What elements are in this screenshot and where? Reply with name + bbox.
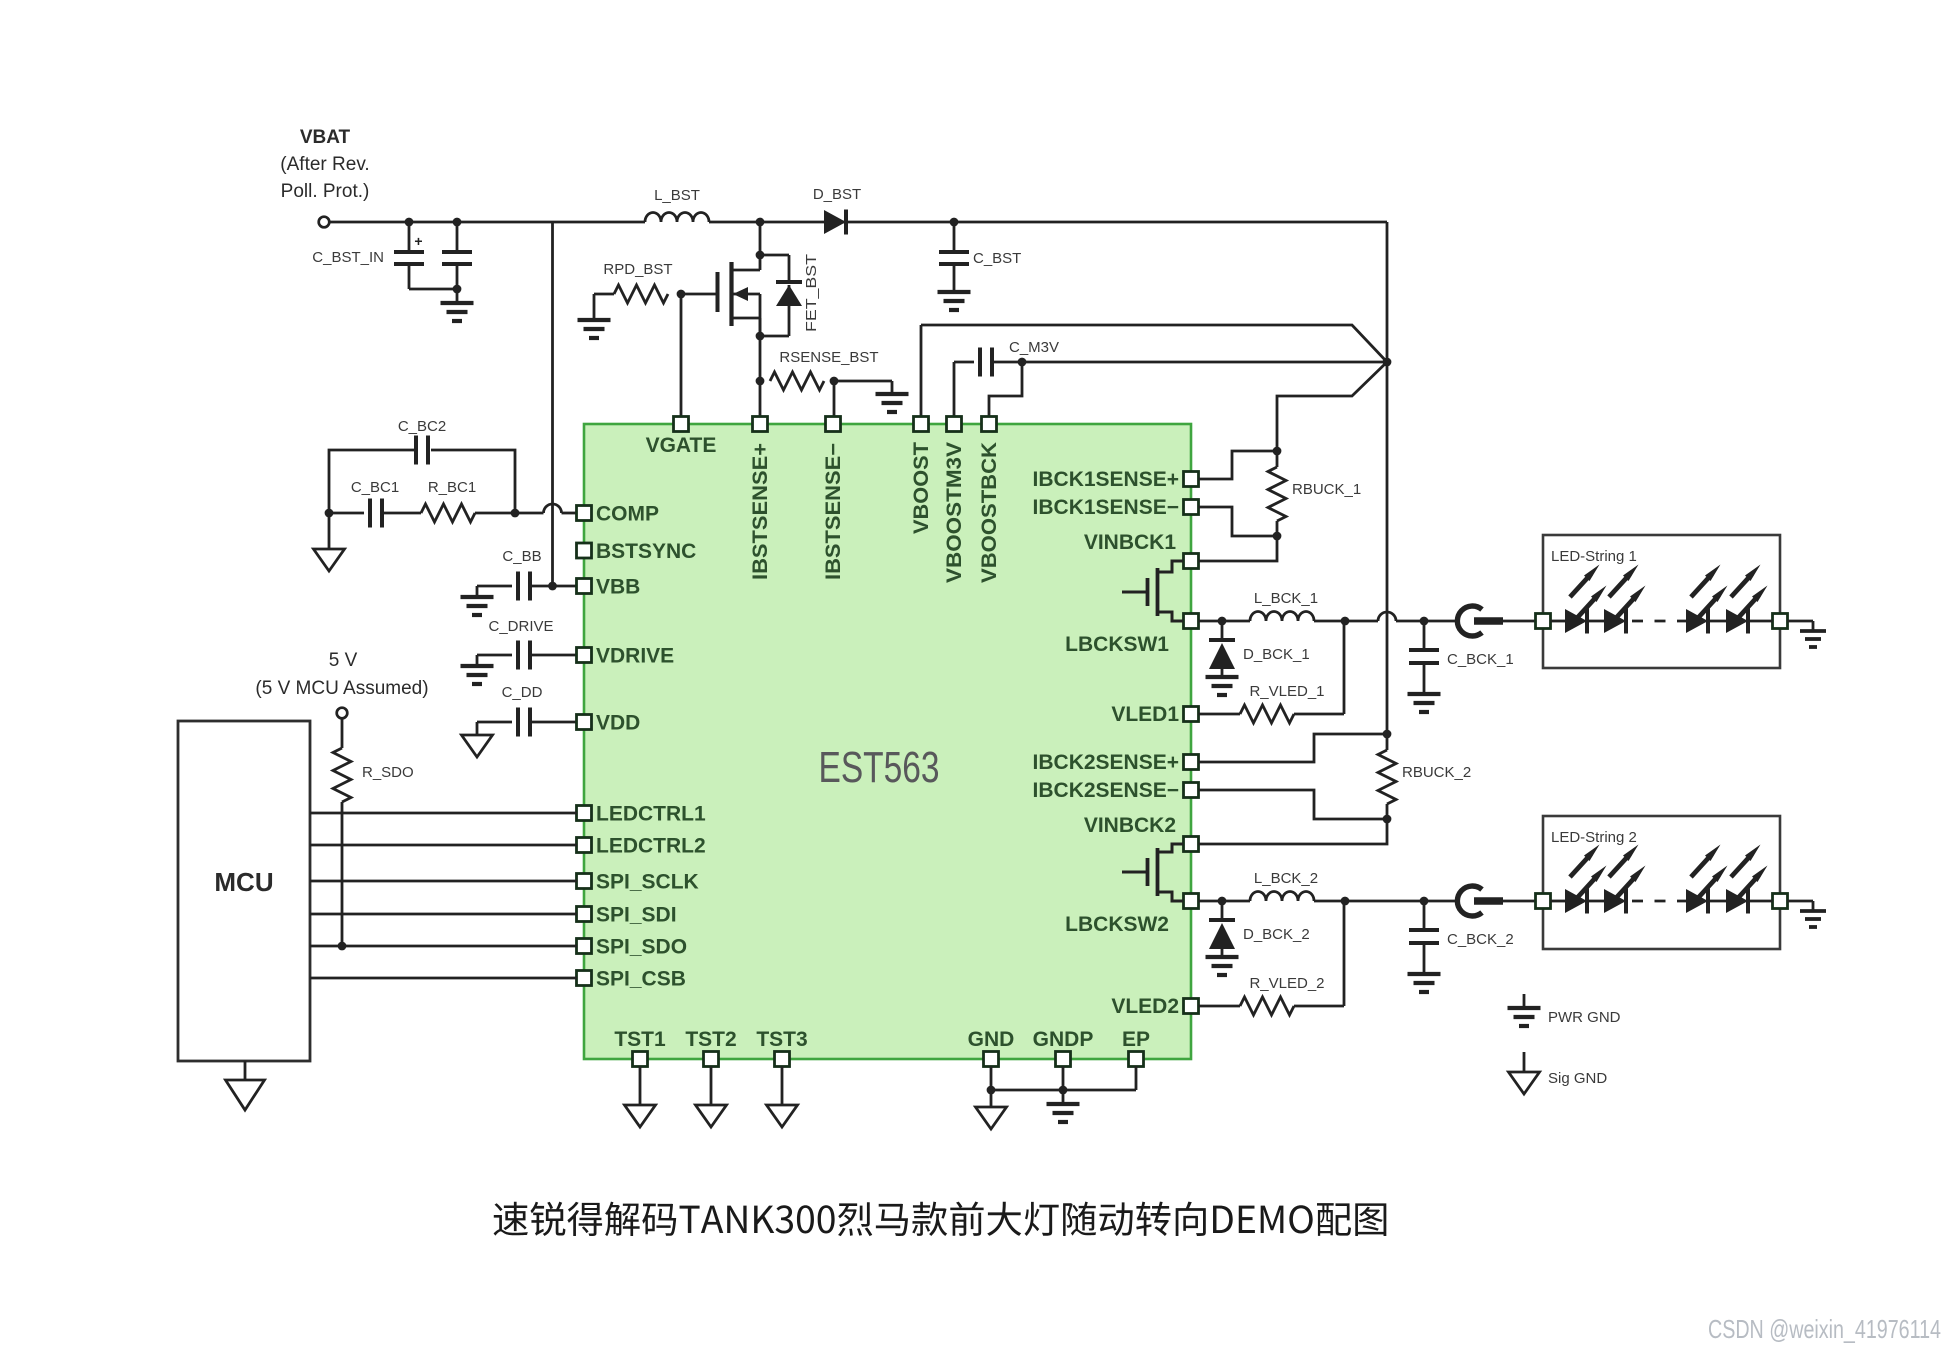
- ferrite bead output 2: [1457, 886, 1482, 916]
- diode D_BST: [824, 210, 846, 234]
- LED D4 string1: [1708, 620, 1737, 623]
- svg-text:LEDCTRL2: LEDCTRL2: [596, 835, 706, 858]
- pin IBCK1SENSE-: [1184, 500, 1199, 515]
- ground RSENSE_BST: [876, 392, 909, 396]
- svg-text:VGATE: VGATE: [646, 434, 717, 457]
- wire TST1 to ground: [639, 1067, 642, 1106]
- svg-text:SPI_SDO: SPI_SDO: [596, 936, 687, 959]
- wire IBCK1SENSE- to RBUCK_1 bottom: [1199, 507, 1278, 536]
- wire C_M3V to bus point: [1022, 361, 1387, 364]
- svg-text:IBSTSENSE−: IBSTSENSE−: [822, 443, 845, 580]
- svg-text:+: +: [414, 233, 422, 249]
- junction dot buck1 output: [1341, 617, 1350, 626]
- resistor R_VLED_1: [1199, 713, 1241, 716]
- terminal 5V: [337, 708, 348, 719]
- pin VDD: [577, 715, 592, 730]
- junction dot VBB: [548, 582, 557, 591]
- capacitor C_BC2 loop: [329, 450, 414, 513]
- diode D_BCK_2: [1221, 901, 1224, 920]
- terminal LED-String 1 in: [1536, 614, 1551, 629]
- junction dot bus point: [1383, 358, 1392, 367]
- wire drain from switch node: [759, 222, 762, 255]
- junction dot RBUCK_2 top: [1383, 730, 1392, 739]
- pin BSTSYNC: [577, 543, 592, 558]
- svg-text:SPI_CSB: SPI_CSB: [596, 968, 686, 991]
- svg-text:VDRIVE: VDRIVE: [596, 645, 674, 668]
- svg-text:C_BC2: C_BC2: [398, 418, 446, 435]
- wire FET source down: [759, 336, 762, 417]
- svg-text:C_BB: C_BB: [502, 548, 541, 565]
- svg-text:VBOOSTM3V: VBOOSTM3V: [943, 442, 966, 583]
- wire SPI_SCLK: [310, 880, 577, 883]
- svg-text:L_BCK_1: L_BCK_1: [1254, 590, 1318, 607]
- ferrite bead output 1: [1457, 606, 1482, 636]
- junction dot boost switch node: [756, 218, 765, 227]
- transistor FET_BST: [716, 272, 720, 312]
- svg-text:LBCKSW1: LBCKSW1: [1065, 633, 1169, 656]
- wire D4 to out: [1748, 620, 1773, 623]
- svg-text:COMP: COMP: [596, 503, 659, 526]
- terminal LED-String 2 out: [1773, 894, 1788, 909]
- capacitor C_DD: [477, 721, 512, 724]
- wire SPI_CSB: [310, 977, 577, 980]
- wire L_BCK_1 to node: [1314, 620, 1345, 623]
- svg-text:SPI_SDI: SPI_SDI: [596, 904, 677, 927]
- wire LBCKSW2 out: [1199, 900, 1251, 903]
- svg-text:GNDP: GNDP: [1033, 1028, 1094, 1051]
- svg-text:VLED1: VLED1: [1111, 703, 1179, 726]
- ground C_BCK_2: [1408, 972, 1441, 976]
- svg-text:EST563: EST563: [819, 743, 940, 792]
- ground node A: [328, 513, 331, 549]
- junction dot RBUCK_1 top: [1273, 447, 1282, 456]
- pin LEDCTRL1: [577, 806, 592, 821]
- junction dot RBUCK_1 bottom: [1273, 532, 1282, 541]
- LED-String 2 box: [1543, 816, 1780, 949]
- svg-text:D_BST: D_BST: [813, 186, 861, 203]
- wire LEDCTRL1: [310, 812, 577, 815]
- ground LED-String 2: [1800, 909, 1826, 913]
- wire GND down: [990, 1090, 993, 1107]
- junction dot RSENSE right: [830, 377, 839, 386]
- svg-text:C_DRIVE: C_DRIVE: [488, 618, 553, 635]
- wire ferrite to LED-String 1: [1502, 620, 1543, 623]
- caption text: [494, 1201, 1387, 1236]
- junction dot C_M3V right: [1018, 358, 1027, 367]
- ground D_BCK_2: [1206, 955, 1239, 959]
- LED D2 string2: [1587, 900, 1605, 903]
- wire dashed string2: [1632, 900, 1692, 903]
- svg-text:LED-String 1: LED-String 1: [1551, 548, 1637, 565]
- capacitor C_BB: [477, 585, 512, 588]
- resistor R_VLED_2: [1199, 1005, 1241, 1008]
- pin VBOOSTM3V: [947, 417, 962, 432]
- pin SPI_SDO: [577, 939, 592, 954]
- body diode FET_BST: [760, 254, 789, 257]
- wire LED-String 1 to ground: [1788, 620, 1814, 623]
- wire D4 to out 2: [1748, 900, 1773, 903]
- capacitor C_M3V: [953, 362, 956, 417]
- junction dot C2 bottom: [453, 285, 462, 294]
- ground D_BCK_1: [1206, 675, 1239, 679]
- diode D_BCK_1: [1221, 621, 1224, 640]
- svg-text:Sig GND: Sig GND: [1548, 1070, 1607, 1087]
- wire GNDP down: [1062, 1090, 1065, 1104]
- pin TST3: [775, 1052, 790, 1067]
- wire comp to COMP pin with hop: [515, 512, 544, 515]
- resistor R_BC1: [382, 512, 421, 515]
- svg-text:PWR GND: PWR GND: [1548, 1009, 1621, 1026]
- LED D2 string1: [1587, 620, 1605, 623]
- ground MCU: [244, 1061, 247, 1080]
- svg-text:GND: GND: [968, 1028, 1015, 1051]
- junction dot FET drain: [756, 251, 765, 260]
- wire bus arrow top: [921, 325, 1387, 362]
- node gate FET_BST: [677, 290, 686, 299]
- capacitor C_BC1: [329, 512, 364, 515]
- pin IBCK2SENSE-: [1184, 783, 1199, 798]
- wire IBCK2SENSE- to RBUCK_2 bottom: [1199, 790, 1388, 819]
- svg-text:CSDN @weixin_41976114: CSDN @weixin_41976114: [1708, 1314, 1941, 1344]
- svg-text:L_BCK_2: L_BCK_2: [1254, 870, 1318, 887]
- wire VBAT branch down to VBB: [551, 222, 554, 586]
- pin VINBCK1: [1184, 554, 1199, 569]
- ground legend PWR GND: [1523, 994, 1526, 1008]
- svg-text:LBCKSW2: LBCKSW2: [1065, 913, 1169, 936]
- wire VBOOST vertical right: [1386, 222, 1389, 734]
- svg-text:IBCK2SENSE−: IBCK2SENSE−: [1033, 779, 1179, 802]
- transistor buck2 internal: [1122, 871, 1147, 874]
- svg-text:C_BCK_1: C_BCK_1: [1447, 651, 1514, 668]
- wire ferrite to LED-String 2: [1502, 900, 1543, 903]
- wire VBOOSTBCK jog: [989, 362, 1022, 417]
- wire gate to VGATE pin: [680, 294, 683, 417]
- svg-text:R_BC1: R_BC1: [428, 479, 476, 496]
- svg-text:VDD: VDD: [596, 712, 640, 735]
- wire VBAT rail: [330, 221, 646, 224]
- ground TST3: [767, 1105, 798, 1127]
- junction dot C_BST node: [950, 218, 959, 227]
- pin EP: [1129, 1052, 1144, 1067]
- svg-text:TST1: TST1: [614, 1028, 666, 1051]
- svg-text:L_BST: L_BST: [654, 187, 700, 204]
- pin TST2: [704, 1052, 719, 1067]
- transistor buck1 internal: [1122, 591, 1147, 594]
- svg-text:RBUCK_2: RBUCK_2: [1402, 764, 1471, 781]
- junction dot D_BCK_1: [1218, 617, 1227, 626]
- terminal LED-String 2 in: [1536, 894, 1551, 909]
- junction dot R_SDO to SPI_SDO: [338, 942, 347, 951]
- svg-text:FET_BST: FET_BST: [803, 254, 820, 332]
- pin IBCK2SENSE+: [1184, 755, 1199, 770]
- junction dot GNDP: [1059, 1086, 1068, 1095]
- svg-text:C_BCK_2: C_BCK_2: [1447, 931, 1514, 948]
- terminal VBAT input: [319, 217, 330, 228]
- resistor R_SDO: [341, 718, 344, 748]
- svg-text:Poll. Prot.): Poll. Prot.): [281, 181, 370, 202]
- pin LBCKSW1: [1184, 614, 1199, 629]
- svg-text:VBAT: VBAT: [300, 127, 351, 148]
- pin SPI_SDI: [577, 907, 592, 922]
- ground TST2: [696, 1105, 727, 1127]
- pin VBOOST: [914, 417, 929, 432]
- pin GNDP: [1056, 1052, 1071, 1067]
- svg-text:TST2: TST2: [685, 1028, 736, 1051]
- pin SPI_CSB: [577, 971, 592, 986]
- svg-text:RSENSE_BST: RSENSE_BST: [779, 349, 878, 366]
- svg-text:MCU: MCU: [214, 867, 273, 897]
- wire IBCK1SENSE+ to RBUCK_1 top: [1199, 451, 1278, 479]
- svg-text:C_M3V: C_M3V: [1009, 339, 1059, 356]
- svg-text:IBSTSENSE+: IBSTSENSE+: [749, 443, 772, 580]
- svg-text:D_BCK_2: D_BCK_2: [1243, 926, 1310, 943]
- pin VGATE: [674, 417, 689, 432]
- ground RPD_BST: [593, 294, 596, 320]
- svg-text:IBCK2SENSE+: IBCK2SENSE+: [1033, 751, 1179, 774]
- svg-text:VLED2: VLED2: [1111, 995, 1179, 1018]
- IC U1 EST563 body: [584, 424, 1191, 1059]
- junction dot rail at C2: [453, 218, 462, 227]
- junction dot C_BCK_2: [1420, 897, 1429, 906]
- pin GND: [984, 1052, 999, 1067]
- svg-text:5 V: 5 V: [329, 650, 358, 671]
- resistor RBUCK_1: [1276, 451, 1279, 467]
- wire SPI_SDI: [310, 913, 577, 916]
- wire VBOOST pin riser: [920, 325, 923, 417]
- svg-text:R_VLED_2: R_VLED_2: [1249, 975, 1324, 992]
- capacitor C_BCK_2: [1423, 901, 1426, 930]
- wire GND/GNDP/EP tie: [990, 1067, 993, 1091]
- ground GNDP power: [1047, 1102, 1080, 1106]
- ground LED-String 1: [1800, 629, 1826, 633]
- ground GND signal: [976, 1107, 1007, 1129]
- pin VLED2: [1184, 999, 1199, 1014]
- svg-text:RPD_BST: RPD_BST: [603, 261, 672, 278]
- junction dot RSENSE left: [756, 377, 765, 386]
- LED D3 string1: [1686, 609, 1708, 633]
- pin TST1: [633, 1052, 648, 1067]
- LED D1 string1: [1551, 620, 1566, 623]
- svg-text:LEDCTRL1: LEDCTRL1: [596, 803, 706, 826]
- pin VLED1: [1184, 707, 1199, 722]
- wire IBCK2SENSE+ to RBUCK_2 top: [1199, 734, 1388, 762]
- svg-text:(After Rev.: (After Rev.: [280, 154, 369, 175]
- svg-text:TST3: TST3: [756, 1028, 807, 1051]
- junction dot D_BCK_2: [1218, 897, 1227, 906]
- LED-String 1 box: [1543, 535, 1780, 668]
- wire rail L_BST to corner: [709, 221, 1387, 224]
- svg-text:VINBCK2: VINBCK2: [1084, 814, 1176, 837]
- svg-text:EP: EP: [1122, 1028, 1150, 1051]
- pin IBSTSENSE-: [826, 417, 841, 432]
- svg-text:VBOOSTBCK: VBOOSTBCK: [978, 442, 1001, 583]
- pin LEDCTRL2: [577, 838, 592, 853]
- wire buck1 output with hop: [1345, 620, 1378, 623]
- ground C_BST: [938, 290, 971, 294]
- wire dashed string1: [1632, 620, 1692, 623]
- wire TST3 to ground: [781, 1067, 784, 1106]
- pin VBOOSTBCK: [982, 417, 997, 432]
- wire LED-String 2 to ground: [1788, 900, 1814, 903]
- resistor RSENSE_BST: [770, 372, 824, 390]
- junction dot comp right: [511, 509, 520, 518]
- junction dot C_BCK_1: [1420, 617, 1429, 626]
- wire R_VLED_2 riser: [1343, 901, 1346, 1006]
- inductor L_BCK_1: [1250, 612, 1314, 622]
- svg-text:C_DD: C_DD: [502, 684, 543, 701]
- junction dot RBUCK_2 bottom: [1383, 815, 1392, 824]
- wire LEDCTRL2: [310, 844, 577, 847]
- resistor RPD_BST: [614, 285, 668, 303]
- junction dot FET source: [756, 332, 765, 341]
- capacitor C_DRIVE: [477, 654, 512, 657]
- wire to ferrite 2: [1424, 900, 1460, 903]
- svg-text:VBB: VBB: [596, 576, 640, 599]
- capacitor C2 input: [456, 222, 459, 252]
- junction dot GND: [987, 1086, 996, 1095]
- junction dot rail at C_BST_IN: [405, 218, 414, 227]
- wire R_VLED_1 riser: [1343, 621, 1346, 714]
- svg-text:R_SDO: R_SDO: [362, 764, 414, 781]
- pin IBCK1SENSE+: [1184, 472, 1199, 487]
- wire bus arrow bottom: [1277, 362, 1387, 451]
- LED D1 string2: [1551, 900, 1566, 903]
- resistor RBUCK_2: [1386, 734, 1389, 750]
- wire LBCKSW1 out: [1199, 620, 1251, 623]
- wire RSENSE right to ground: [834, 380, 892, 383]
- svg-text:IBCK1SENSE+: IBCK1SENSE+: [1033, 468, 1179, 491]
- ground TST1: [625, 1105, 656, 1127]
- wire RBUCK_1 to VINBCK1: [1199, 536, 1278, 561]
- pin LBCKSW2: [1184, 894, 1199, 909]
- svg-text:C_BST: C_BST: [973, 250, 1021, 267]
- svg-text:SPI_SCLK: SPI_SCLK: [596, 871, 699, 894]
- wire to ferrite 1: [1424, 620, 1460, 623]
- ground input caps: [441, 301, 474, 305]
- svg-text:IBCK1SENSE−: IBCK1SENSE−: [1033, 496, 1179, 519]
- svg-text:C_BC1: C_BC1: [351, 479, 399, 496]
- pin VBB: [577, 579, 592, 594]
- junction dot buck2 output: [1341, 897, 1350, 906]
- wire L_BCK_2 to node: [1314, 900, 1424, 903]
- ground C_BCK_1: [1408, 692, 1441, 696]
- svg-text:LED-String 2: LED-String 2: [1551, 829, 1637, 846]
- node A comp left: [325, 509, 334, 518]
- MCU box: [178, 721, 310, 1061]
- capacitor C_BST: [953, 222, 956, 251]
- inductor L_BST: [645, 213, 709, 223]
- ground C_BB: [476, 586, 479, 597]
- wire RBUCK_2 to VINBCK2: [1199, 819, 1388, 844]
- svg-text:D_BCK_1: D_BCK_1: [1243, 646, 1310, 663]
- wire gate to FET: [681, 293, 717, 296]
- ground C_DRIVE: [476, 655, 479, 666]
- wire SPI_SDO: [310, 945, 577, 948]
- pin IBSTSENSE+: [753, 417, 768, 432]
- svg-text:VINBCK1: VINBCK1: [1084, 531, 1177, 554]
- pin VDRIVE: [577, 648, 592, 663]
- svg-text:(5 V MCU Assumed): (5 V MCU Assumed): [255, 678, 428, 699]
- svg-text:BSTSYNC: BSTSYNC: [596, 540, 696, 563]
- terminal LED-String 1 out: [1773, 614, 1788, 629]
- wire RSENSE to IBSTSENSE- pin: [833, 381, 836, 417]
- pin COMP: [577, 506, 592, 521]
- wire TST2 to ground: [710, 1067, 713, 1106]
- ground legend Sig GND: [1523, 1052, 1526, 1072]
- pin SPI_SCLK: [577, 874, 592, 889]
- capacitor C_BCK_1: [1423, 621, 1426, 650]
- svg-text:VBOOST: VBOOST: [910, 442, 933, 534]
- svg-text:C_BST_IN: C_BST_IN: [312, 249, 384, 266]
- capacitor C_BST_IN: [408, 222, 411, 251]
- svg-text:R_VLED_1: R_VLED_1: [1249, 683, 1324, 700]
- ground C_DD: [476, 722, 479, 735]
- svg-text:RBUCK_1: RBUCK_1: [1292, 481, 1361, 498]
- LED D4 string2: [1708, 900, 1737, 903]
- pin VINBCK2: [1184, 837, 1199, 852]
- inductor L_BCK_2: [1250, 892, 1314, 901]
- LED D3 string2: [1686, 889, 1708, 913]
